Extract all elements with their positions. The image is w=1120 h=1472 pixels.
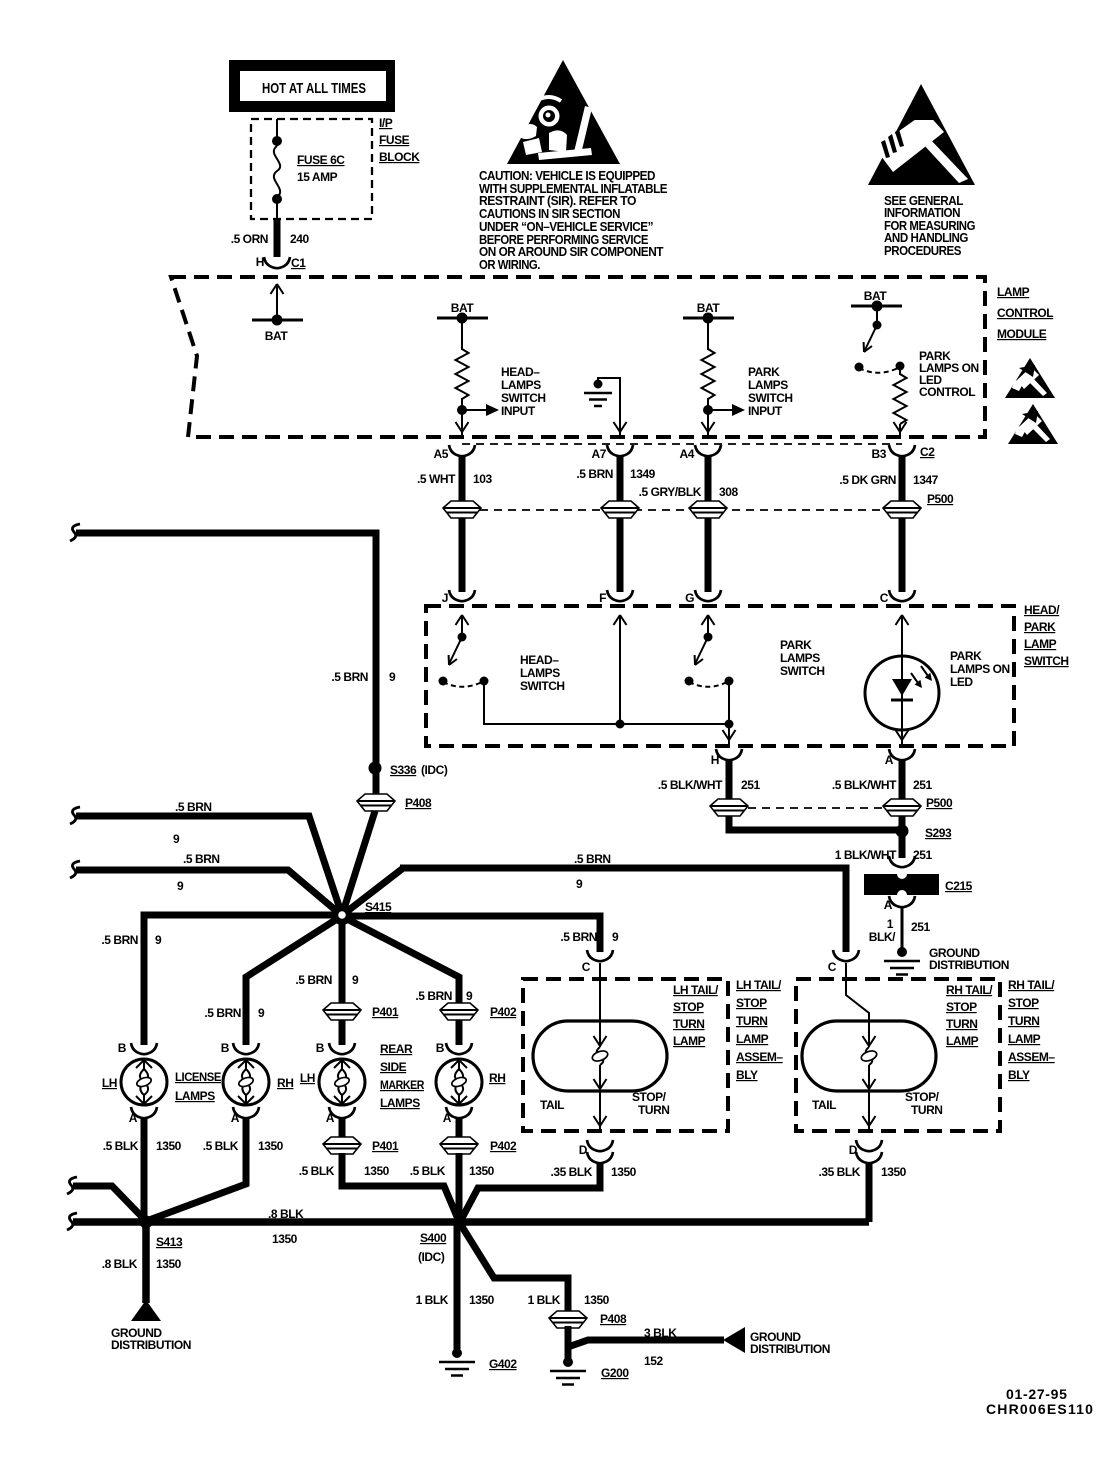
svg-text:OR WIRING.: OR WIRING. xyxy=(479,258,540,272)
svg-text:1350: 1350 xyxy=(364,1164,390,1178)
svg-text:251: 251 xyxy=(913,778,932,792)
svg-text:.5 BRN: .5 BRN xyxy=(175,800,212,814)
svg-text:S400: S400 xyxy=(420,1231,447,1245)
svg-text:SWITCH: SWITCH xyxy=(1024,654,1069,668)
svg-text:RH: RH xyxy=(489,1071,505,1085)
svg-text:LAMP: LAMP xyxy=(1024,637,1057,651)
svg-text:A: A xyxy=(231,1111,240,1125)
svg-text:AND HANDLING: AND HANDLING xyxy=(884,231,968,245)
svg-text:SWITCH: SWITCH xyxy=(780,664,825,678)
svg-text:TAIL: TAIL xyxy=(540,1098,564,1112)
svg-text:HEAD–: HEAD– xyxy=(501,365,540,379)
svg-text:BAT: BAT xyxy=(265,329,289,343)
svg-text:LH: LH xyxy=(300,1071,315,1085)
svg-text:1350: 1350 xyxy=(156,1257,182,1271)
svg-text:CAUTION: VEHICLE IS EQUIPPED: CAUTION: VEHICLE IS EQUIPPED xyxy=(479,169,655,183)
svg-text:9: 9 xyxy=(173,832,180,846)
svg-text:STOP/: STOP/ xyxy=(905,1090,940,1104)
svg-text:9: 9 xyxy=(258,1006,265,1020)
svg-text:9: 9 xyxy=(177,879,184,893)
svg-text:LAMPS: LAMPS xyxy=(520,666,560,680)
svg-text:CONTROL: CONTROL xyxy=(919,385,975,399)
svg-text:LAMPS ON: LAMPS ON xyxy=(950,662,1010,676)
svg-text:DISTRIBUTION: DISTRIBUTION xyxy=(750,1342,830,1356)
svg-text:.5 BRN: .5 BRN xyxy=(415,989,452,1003)
svg-text:.5 BLK: .5 BLK xyxy=(203,1139,239,1153)
svg-text:.5 BRN: .5 BRN xyxy=(204,1006,241,1020)
svg-text:RESTRAINT (SIR). REFER TO: RESTRAINT (SIR). REFER TO xyxy=(479,194,637,208)
svg-text:1350: 1350 xyxy=(156,1139,182,1153)
svg-text:P408: P408 xyxy=(405,796,432,810)
svg-text:9: 9 xyxy=(612,930,619,944)
svg-text:TURN: TURN xyxy=(736,1014,768,1028)
svg-text:C: C xyxy=(828,960,837,974)
svg-text:ASSEM–: ASSEM– xyxy=(1008,1050,1055,1064)
svg-text:STOP: STOP xyxy=(673,1000,704,1014)
svg-text:G402: G402 xyxy=(489,1357,517,1371)
svg-text:LAMPS: LAMPS xyxy=(380,1096,420,1110)
svg-text:103: 103 xyxy=(473,472,492,486)
svg-text:1350: 1350 xyxy=(611,1165,637,1179)
svg-text:B: B xyxy=(221,1041,230,1055)
svg-text:CHR006ES110: CHR006ES110 xyxy=(986,1401,1094,1417)
svg-text:.5 BRN: .5 BRN xyxy=(331,670,368,684)
svg-text:REAR: REAR xyxy=(380,1042,413,1056)
svg-text:PARK: PARK xyxy=(950,649,982,663)
svg-text:.8 BLK: .8 BLK xyxy=(102,1257,138,1271)
svg-text:B: B xyxy=(316,1041,325,1055)
svg-text:B: B xyxy=(118,1041,127,1055)
svg-text:P408: P408 xyxy=(600,1312,627,1326)
svg-text:S413: S413 xyxy=(156,1235,183,1249)
svg-text:(IDC): (IDC) xyxy=(421,763,448,777)
svg-text:152: 152 xyxy=(644,1354,663,1368)
svg-text:STOP: STOP xyxy=(736,996,767,1010)
svg-text:.35 BLK: .35 BLK xyxy=(818,1165,860,1179)
svg-text:9: 9 xyxy=(466,989,473,1003)
svg-text:1350: 1350 xyxy=(469,1164,495,1178)
svg-text:MARKER: MARKER xyxy=(380,1078,425,1092)
svg-text:LAMP: LAMP xyxy=(946,1034,979,1048)
svg-text:.5 WHT: .5 WHT xyxy=(417,472,456,486)
svg-text:TURN: TURN xyxy=(673,1017,705,1031)
svg-text:DISTRIBUTION: DISTRIBUTION xyxy=(111,1338,191,1352)
svg-text:FUSE: FUSE xyxy=(379,133,410,147)
svg-text:.5 BLK/WHT: .5 BLK/WHT xyxy=(832,778,897,792)
svg-text:1349: 1349 xyxy=(630,467,656,481)
svg-text:.5 BLK: .5 BLK xyxy=(410,1164,446,1178)
svg-text:P500: P500 xyxy=(926,796,953,810)
svg-text:A4: A4 xyxy=(680,447,695,461)
svg-text:SIDE: SIDE xyxy=(380,1060,407,1074)
svg-text:LAMPS: LAMPS xyxy=(748,378,788,392)
svg-text:C: C xyxy=(582,960,591,974)
svg-text:TURN: TURN xyxy=(1008,1014,1040,1028)
svg-text:G: G xyxy=(685,591,694,605)
svg-text:A: A xyxy=(443,1111,452,1125)
svg-text:B: B xyxy=(436,1041,445,1055)
svg-text:FUSE 6C: FUSE 6C xyxy=(297,153,345,167)
svg-text:MODULE: MODULE xyxy=(997,327,1047,341)
svg-text:1347: 1347 xyxy=(913,473,939,487)
svg-text:01-27-95: 01-27-95 xyxy=(1006,1386,1068,1402)
svg-text:C: C xyxy=(880,591,889,605)
svg-text:STOP/: STOP/ xyxy=(632,1090,667,1104)
svg-text:D: D xyxy=(849,1143,858,1157)
svg-text:UNDER “ON–VEHICLE SERVICE”: UNDER “ON–VEHICLE SERVICE” xyxy=(479,220,653,234)
svg-text:251: 251 xyxy=(741,778,760,792)
svg-text:.8 BLK: .8 BLK xyxy=(268,1207,304,1221)
svg-text:LH TAIL/: LH TAIL/ xyxy=(736,978,782,992)
svg-text:.5 BRN: .5 BRN xyxy=(101,933,138,947)
svg-text:9: 9 xyxy=(155,933,162,947)
svg-text:HEAD–: HEAD– xyxy=(520,653,559,667)
svg-text:SWITCH: SWITCH xyxy=(748,391,793,405)
svg-text:LH: LH xyxy=(102,1076,117,1090)
svg-text:PARK: PARK xyxy=(748,365,780,379)
svg-text:TURN: TURN xyxy=(946,1017,978,1031)
svg-text:(IDC): (IDC) xyxy=(418,1250,445,1264)
svg-text:A: A xyxy=(884,898,893,912)
svg-text:H: H xyxy=(711,753,719,767)
svg-text:P401: P401 xyxy=(372,1005,399,1019)
svg-text:J: J xyxy=(442,591,448,605)
svg-text:.5 GRY/BLK: .5 GRY/BLK xyxy=(639,485,702,499)
svg-text:C1: C1 xyxy=(291,256,306,270)
svg-text:251: 251 xyxy=(911,920,930,934)
svg-text:C2: C2 xyxy=(920,445,935,459)
svg-text:TURN: TURN xyxy=(911,1103,943,1117)
svg-text:A: A xyxy=(326,1111,335,1125)
svg-text:251: 251 xyxy=(913,848,932,862)
svg-text:1350: 1350 xyxy=(469,1293,495,1307)
svg-text:LED: LED xyxy=(950,675,973,689)
svg-text:S293: S293 xyxy=(925,826,952,840)
svg-text:9: 9 xyxy=(576,877,583,891)
svg-text:BLY: BLY xyxy=(1008,1068,1030,1082)
svg-text:.5 BRN: .5 BRN xyxy=(295,973,332,987)
svg-text:STOP: STOP xyxy=(1008,996,1039,1010)
svg-text:P500: P500 xyxy=(927,492,954,506)
svg-text:RH TAIL/: RH TAIL/ xyxy=(946,983,993,997)
svg-text:INPUT: INPUT xyxy=(501,404,536,418)
svg-text:P402: P402 xyxy=(490,1139,517,1153)
svg-text:TURN: TURN xyxy=(638,1103,670,1117)
svg-text:HOT AT ALL TIMES: HOT AT ALL TIMES xyxy=(262,80,366,97)
svg-text:PARK: PARK xyxy=(1024,620,1056,634)
svg-text:P401: P401 xyxy=(372,1139,399,1153)
svg-text:INFORMATION: INFORMATION xyxy=(884,206,960,220)
svg-text:CONTROL: CONTROL xyxy=(997,306,1053,320)
svg-text:H: H xyxy=(256,255,264,269)
svg-text:.5 BLK: .5 BLK xyxy=(299,1164,335,1178)
svg-text:1 BLK: 1 BLK xyxy=(528,1293,561,1307)
svg-text:308: 308 xyxy=(719,485,738,499)
svg-text:HEAD/: HEAD/ xyxy=(1024,603,1060,617)
svg-text:A: A xyxy=(129,1111,138,1125)
svg-text:LAMP: LAMP xyxy=(736,1032,769,1046)
svg-text:LAMPS: LAMPS xyxy=(501,378,541,392)
svg-text:1350: 1350 xyxy=(881,1165,907,1179)
svg-text:C215: C215 xyxy=(945,879,973,893)
svg-text:I/P: I/P xyxy=(379,116,393,130)
svg-text:S336: S336 xyxy=(390,763,417,777)
svg-text:SWITCH: SWITCH xyxy=(520,679,565,693)
svg-text:LAMPS: LAMPS xyxy=(175,1089,215,1103)
svg-text:S415: S415 xyxy=(365,900,392,914)
svg-text:LAMP: LAMP xyxy=(997,285,1030,299)
svg-text:.5 BRN: .5 BRN xyxy=(560,930,597,944)
svg-text:1350: 1350 xyxy=(258,1139,284,1153)
svg-text:A7: A7 xyxy=(592,447,607,461)
svg-text:.5 BLK/WHT: .5 BLK/WHT xyxy=(658,778,723,792)
svg-text:BLK/: BLK/ xyxy=(869,930,896,944)
svg-text:LH TAIL/: LH TAIL/ xyxy=(673,983,719,997)
svg-text:RH TAIL/: RH TAIL/ xyxy=(1008,978,1055,992)
svg-text:G200: G200 xyxy=(601,1366,629,1380)
svg-text:.5 BRN: .5 BRN xyxy=(183,852,220,866)
svg-text:B3: B3 xyxy=(872,447,887,461)
svg-text:1: 1 xyxy=(887,917,894,931)
svg-text:9: 9 xyxy=(352,973,359,987)
svg-text:3 BLK: 3 BLK xyxy=(644,1326,677,1340)
svg-text:LAMP: LAMP xyxy=(1008,1032,1041,1046)
svg-text:240: 240 xyxy=(290,232,309,246)
svg-text:INPUT: INPUT xyxy=(748,404,783,418)
svg-text:BLY: BLY xyxy=(736,1068,758,1082)
svg-text:P402: P402 xyxy=(490,1005,517,1019)
svg-text:1 BLK: 1 BLK xyxy=(416,1293,449,1307)
svg-text:.5 BLK: .5 BLK xyxy=(103,1139,139,1153)
svg-text:ON OR AROUND SIR COMPONENT: ON OR AROUND SIR COMPONENT xyxy=(479,245,664,259)
svg-text:9: 9 xyxy=(389,670,396,684)
svg-text:1 BLK/WHT: 1 BLK/WHT xyxy=(835,848,897,862)
svg-text:F: F xyxy=(599,591,606,605)
svg-text:DISTRIBUTION: DISTRIBUTION xyxy=(929,958,1009,972)
svg-text:15 AMP: 15 AMP xyxy=(297,170,338,184)
svg-text:RH: RH xyxy=(277,1076,293,1090)
svg-text:A: A xyxy=(885,753,894,767)
svg-text:.5 BRN: .5 BRN xyxy=(576,467,613,481)
svg-text:1350: 1350 xyxy=(584,1293,610,1307)
svg-text:LICENSE: LICENSE xyxy=(175,1070,221,1084)
svg-text:STOP: STOP xyxy=(946,1000,977,1014)
svg-text:ASSEM–: ASSEM– xyxy=(736,1050,783,1064)
svg-text:.5 ORN: .5 ORN xyxy=(231,232,268,246)
svg-text:.35 BLK: .35 BLK xyxy=(550,1165,592,1179)
svg-text:.5 DK GRN: .5 DK GRN xyxy=(839,473,896,487)
svg-text:D: D xyxy=(579,1143,588,1157)
svg-text:LAMPS: LAMPS xyxy=(780,651,820,665)
svg-text:.5 BRN: .5 BRN xyxy=(574,852,611,866)
svg-text:BLOCK: BLOCK xyxy=(379,150,420,164)
svg-text:CAUTIONS IN SIR SECTION: CAUTIONS IN SIR SECTION xyxy=(479,207,620,221)
svg-text:PROCEDURES: PROCEDURES xyxy=(884,244,961,258)
svg-text:PARK: PARK xyxy=(780,638,812,652)
svg-text:1350: 1350 xyxy=(272,1232,298,1246)
svg-text:A5: A5 xyxy=(434,447,449,461)
svg-text:TAIL: TAIL xyxy=(812,1098,836,1112)
svg-text:LAMP: LAMP xyxy=(673,1034,706,1048)
svg-text:SWITCH: SWITCH xyxy=(501,391,546,405)
